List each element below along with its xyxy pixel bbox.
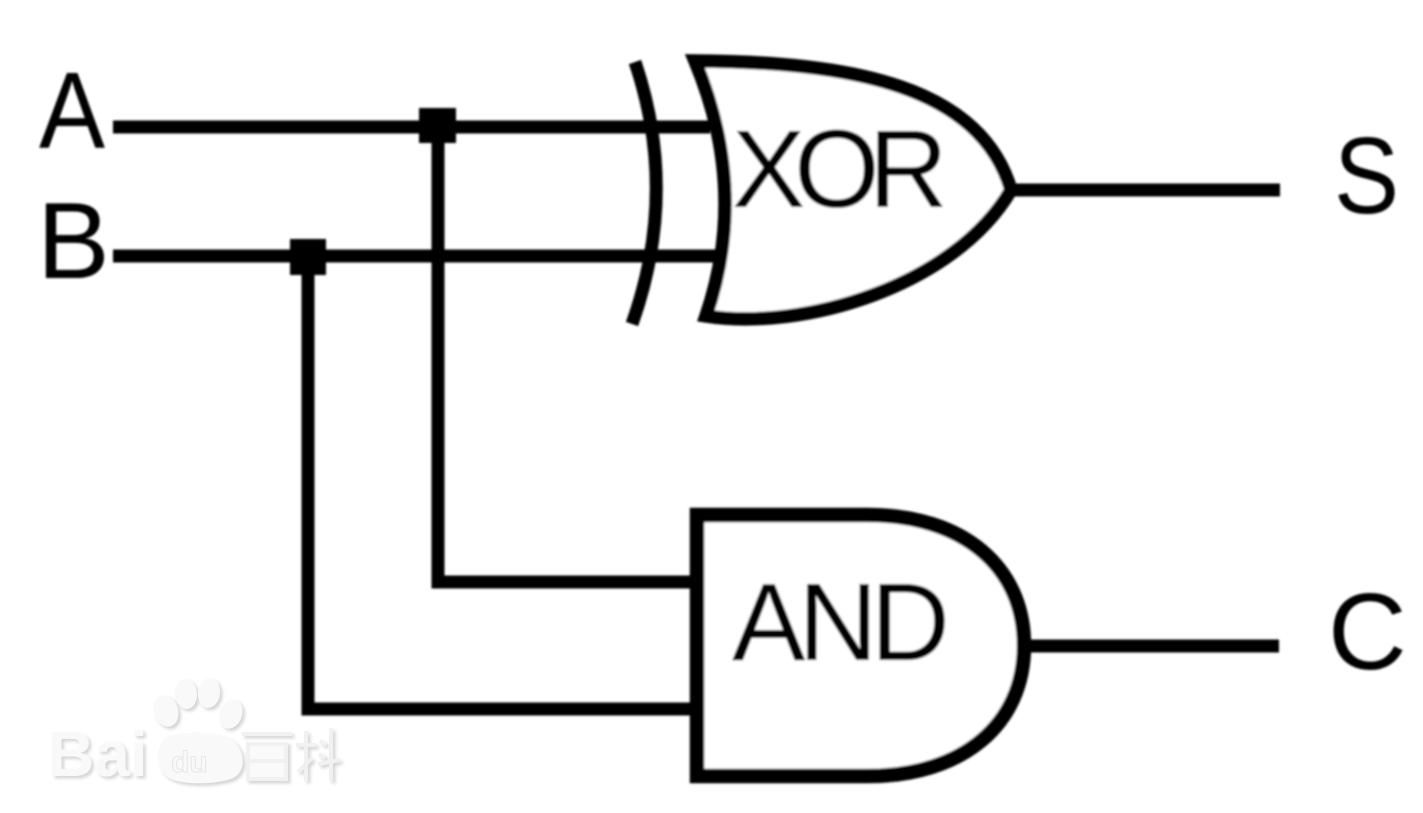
svg-text:du: du xyxy=(171,746,208,779)
svg-text:A: A xyxy=(39,50,105,172)
svg-text:AND: AND xyxy=(732,561,950,684)
svg-text:B: B xyxy=(37,180,110,302)
svg-text:C: C xyxy=(1328,571,1407,693)
svg-text:S: S xyxy=(1334,115,1399,237)
svg-text:Bai: Bai xyxy=(48,718,148,790)
svg-text:XOR: XOR xyxy=(732,108,948,231)
